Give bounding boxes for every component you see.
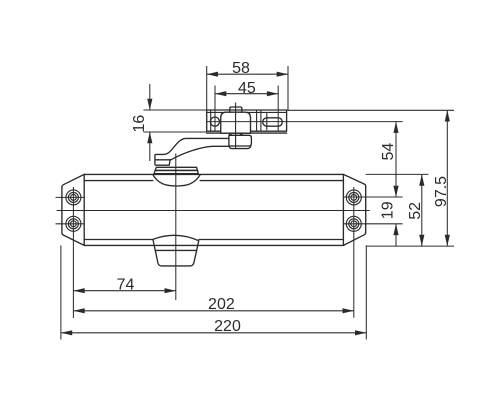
arrow 54 top <box>393 122 398 133</box>
ext line rail hole level right <box>207 121 403 123</box>
svg-text:19: 19 <box>379 201 396 219</box>
ext line 45 right <box>277 86 279 132</box>
right hole crosshair horizontals / ext for 54 and 19 <box>343 197 402 224</box>
arrow 52 top <box>419 174 424 185</box>
arm connection tab right <box>241 133 243 135</box>
svg-text:97.5: 97.5 <box>433 176 450 207</box>
body outline <box>62 174 366 245</box>
arm ridge line <box>155 159 170 161</box>
ext line 45 left <box>214 86 216 132</box>
arrow 74 right <box>165 288 176 293</box>
arrow 74 left <box>73 288 84 293</box>
rail slot <box>263 118 283 126</box>
svg-text:52: 52 <box>407 202 424 220</box>
bucket inner line <box>155 249 196 251</box>
rail inner top line <box>207 111 287 113</box>
main arm <box>155 138 251 165</box>
body center line <box>57 210 369 212</box>
rail internal divider 2 <box>260 110 262 131</box>
dim line 52 <box>421 174 423 246</box>
arrow 220 right <box>355 330 366 335</box>
pinion axis line <box>175 154 177 301</box>
ext line body bottom right <box>366 245 454 247</box>
dim line 220 <box>61 332 366 334</box>
svg-text:58: 58 <box>232 60 250 77</box>
arrow 220 left <box>61 330 72 335</box>
dim line 58 <box>207 73 288 75</box>
body-plate boundary right <box>342 174 344 245</box>
body-plate boundary left <box>83 174 85 245</box>
left hole crosshair horizontals <box>56 197 85 223</box>
ext line 58 left <box>206 66 208 110</box>
arrow 97.5 top <box>445 110 450 121</box>
hub flange plate lower <box>154 170 198 173</box>
right hole crosshair vertical / ext for 202 <box>353 187 355 318</box>
dim line 16 stems <box>149 84 151 161</box>
pivot center line <box>235 103 237 148</box>
ext line body left corner down <box>60 245 62 339</box>
screw hole bottom-left <box>66 216 81 231</box>
svg-text:202: 202 <box>208 296 235 313</box>
rail internal divider left <box>210 110 212 131</box>
slide rail box <box>207 110 287 131</box>
svg-text:220: 220 <box>214 318 241 335</box>
arrow 45 left <box>215 91 226 96</box>
dim line 97.5 <box>446 110 448 246</box>
pinion boss bowl <box>153 175 200 186</box>
screw hole top-left <box>66 190 81 205</box>
arrow 19 bottom <box>393 224 398 235</box>
ext line 58 right <box>287 66 289 110</box>
body inner bottom line <box>84 239 343 241</box>
ext line rail top right <box>287 109 454 111</box>
dim line 45 <box>215 93 278 95</box>
arrow 16 top <box>147 99 152 110</box>
arrow 52 bottom <box>419 235 424 246</box>
arm washer plate <box>229 135 252 146</box>
ext line body top right <box>366 173 429 175</box>
body inner top line <box>84 180 343 182</box>
ext line body right corner down <box>365 245 367 339</box>
rail screw hole <box>210 117 219 126</box>
screw hole top-right <box>346 190 361 205</box>
arm connection tab left <box>230 133 232 135</box>
pivot cap tab <box>230 107 242 112</box>
rail base plate <box>207 132 287 134</box>
bottom bucket <box>153 235 199 266</box>
svg-text:54: 54 <box>380 143 397 161</box>
hub flange plate upper <box>155 167 197 170</box>
svg-text:16: 16 <box>131 115 148 133</box>
left hole crosshair vertical / ext for 74 and 202 <box>72 187 74 318</box>
pivot block <box>221 112 251 133</box>
dim line 54 <box>395 122 397 197</box>
arrow 16 bottom <box>147 132 152 143</box>
arrow 45 right <box>267 91 278 96</box>
ext line rail bottom left <box>143 131 206 133</box>
arrow 58 right <box>277 72 288 77</box>
arrow 54 bottom / 19 top <box>393 186 398 197</box>
arrow 202 left <box>73 308 84 313</box>
ext line rail top left <box>143 109 206 111</box>
rail slot center mark left <box>266 114 268 130</box>
dim line 74 <box>73 290 175 292</box>
arrow 202 right <box>343 308 354 313</box>
rail internal divider right of block <box>256 110 258 131</box>
screw hole bottom-right <box>346 216 361 231</box>
arrow 97.5 bottom <box>445 235 450 246</box>
dim line 202 <box>73 310 353 312</box>
dim line 19 bottom stem <box>395 224 397 246</box>
svg-text:74: 74 <box>117 277 135 294</box>
arrow 58 left <box>207 72 218 77</box>
svg-text:45: 45 <box>238 80 256 97</box>
